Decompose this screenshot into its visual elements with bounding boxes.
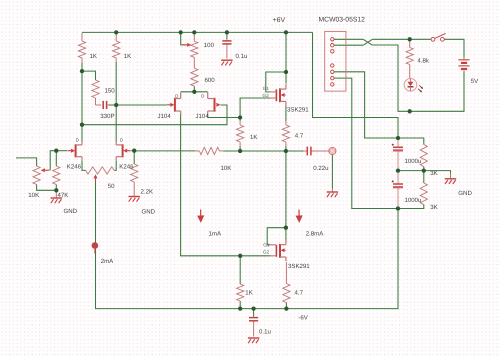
pin label D K246 right	[120, 138, 123, 143]
svg-text:1K: 1K	[90, 53, 97, 60]
wire 1K4 top lead	[239, 256, 241, 284]
wire mid rail right	[223, 150, 304, 152]
junction node LED-bottom	[408, 109, 412, 113]
junction node J104src-1K3	[238, 115, 242, 119]
junction node 3K-row	[422, 168, 426, 172]
svg-text:-6V: -6V	[298, 314, 308, 321]
svg-text:4.7: 4.7	[295, 290, 304, 297]
svg-text:4.8k: 4.8k	[417, 58, 429, 65]
resistor R 4.7 #1	[282, 121, 289, 146]
connector MCW03-05S12 box	[325, 31, 346, 91]
LED emission arrow 1	[419, 85, 423, 89]
wire 1K3 leads	[239, 118, 241, 122]
label K246 left	[67, 164, 82, 171]
capacitor C 330P	[96, 98, 109, 109]
label 1mA	[209, 231, 222, 238]
svg-text:150: 150	[105, 87, 116, 94]
svg-text:D: D	[175, 93, 178, 98]
transistor Q J104 right	[208, 92, 221, 114]
switch S1	[431, 33, 446, 41]
current annotation 2.8mA arrow	[296, 210, 303, 223]
value 3K #2	[430, 204, 437, 211]
svg-text:2.8mA: 2.8mA	[306, 231, 325, 238]
transistor Q 3SK291 top	[270, 84, 286, 105]
connector pin 7	[331, 83, 334, 86]
ground jack	[327, 189, 338, 198]
pin label G2 top	[263, 93, 270, 98]
wire 47K bottom lead	[55, 185, 57, 191]
pin label G1 bottom	[263, 243, 270, 248]
wire left J104 source down	[181, 114, 241, 256]
svg-text:1000u: 1000u	[405, 158, 422, 165]
wire twisted-pair crossing	[363, 39, 372, 45]
resistor R 47K	[53, 166, 60, 185]
value 4.8k	[417, 58, 429, 65]
resistor R 4.8k	[406, 41, 413, 79]
value 600	[205, 77, 216, 84]
wire 2.2K top lead	[133, 151, 135, 164]
junction node 4.7-midrail	[284, 149, 288, 153]
label -6V	[298, 314, 308, 321]
resistor R 10K	[195, 147, 223, 154]
wire 3K junction row to GND	[398, 171, 451, 174]
value 47K	[58, 192, 69, 199]
pin label D J104 left	[175, 93, 178, 98]
wire left J104 gate feed	[116, 104, 166, 106]
svg-text:0.22u: 0.22u	[313, 165, 328, 172]
wire bottom 3SK291 G1 link	[267, 228, 286, 245]
wire 330P to 1K2 node	[108, 104, 116, 106]
wire 1K1-150 link	[82, 71, 96, 80]
resistor R 3K #1	[420, 145, 427, 167]
wire 600 bottom to J104 drains	[193, 86, 195, 91]
wire -6V bottom rail	[240, 209, 398, 309]
svg-text:3K: 3K	[430, 170, 437, 177]
svg-text:3SK291: 3SK291	[288, 263, 310, 270]
value 50	[108, 183, 115, 190]
label K246 right	[119, 164, 134, 171]
resistor R 1K #1	[78, 33, 85, 63]
value 1000u #1	[405, 158, 422, 165]
connector pin 1	[331, 38, 334, 41]
svg-text:J104: J104	[158, 113, 172, 120]
svg-text:47K: 47K	[58, 192, 69, 199]
wire LED return vertical	[372, 45, 409, 111]
junction node drain-3SK291bot	[284, 226, 288, 230]
wire bottom 3SK291 G2 feed	[240, 255, 270, 257]
resistor R 600	[191, 60, 198, 86]
wire pin2 to crossing	[334, 44, 363, 46]
wire 100 trimpot wiper	[181, 32, 187, 45]
svg-text:MCW03-05S12: MCW03-05S12	[319, 17, 366, 24]
wire 47K top lead	[55, 151, 57, 166]
wire left K246 source down	[82, 160, 86, 170]
svg-text:10K: 10K	[28, 192, 39, 199]
junction node K246drain-gatereturn	[80, 123, 84, 127]
label J104 right	[196, 113, 210, 120]
label 1K #4	[245, 290, 252, 297]
svg-text:3SK291: 3SK291	[287, 107, 309, 114]
junction node rail-100wiper	[179, 30, 183, 34]
label J104 left	[158, 113, 172, 120]
transistor Q K246 right	[116, 142, 131, 160]
wire 3K1 top stub	[398, 138, 424, 145]
trimpot 10K wiper arrow	[41, 168, 50, 172]
connector output jack	[329, 147, 336, 154]
svg-text:D: D	[201, 94, 204, 99]
resistor R 100 trimpot	[191, 33, 198, 60]
wire +6V drop to 3SK291 top	[285, 32, 287, 83]
wire +6V top rail	[82, 31, 313, 33]
LED emission arrow 2	[418, 89, 422, 93]
connector pin 3	[331, 50, 334, 53]
junction node 47Ktop	[54, 149, 58, 153]
svg-text:1K: 1K	[245, 290, 252, 297]
value 0.22u	[313, 165, 328, 172]
LED D1	[404, 79, 417, 92]
wire mid rail	[134, 150, 195, 152]
wire 3K2 bottom stub	[398, 205, 424, 209]
wire pin5 drop	[334, 72, 398, 138]
svg-text:1K: 1K	[124, 53, 131, 60]
resistor R 4.7 #2	[283, 262, 290, 303]
resistor R 3K #2	[420, 183, 427, 205]
value 2.2K	[141, 188, 154, 195]
wire battery minus down to LED return rail	[410, 71, 464, 111]
resistor R 2.2K	[131, 164, 138, 192]
svg-text:600: 600	[205, 77, 216, 84]
capacitor C 0.22u	[304, 147, 329, 156]
junction node rail-0.1u	[225, 30, 229, 34]
value 0.1u bottom	[259, 328, 271, 335]
connector pin 5	[331, 70, 334, 73]
junction node rail-1K4	[238, 306, 242, 310]
junction node rail-100	[192, 30, 196, 34]
junction node LED-top	[408, 37, 412, 41]
capacitor C 1000u #2	[392, 171, 403, 209]
svg-text:1000u: 1000u	[405, 197, 422, 204]
junction node outrail-3	[396, 206, 400, 210]
wire right K246 source down	[114, 160, 116, 170]
value 4.7 #1	[295, 133, 304, 140]
wire J104 drain bus	[181, 91, 208, 93]
wire 3K1 bottom lead	[423, 167, 425, 171]
svg-text:4.7: 4.7	[295, 133, 304, 140]
svg-text:K246: K246	[119, 164, 134, 171]
wire 1K1 to K246 left drain vertical	[81, 63, 83, 142]
ground right GND	[445, 174, 456, 185]
wire G1 link top 3SK291	[266, 72, 286, 92]
value 1K #3	[250, 134, 257, 141]
wire input stub	[16, 158, 37, 166]
connector pin 2	[331, 44, 334, 47]
junction node 1K3-midrail	[238, 149, 242, 153]
wire 3SK291 top source to 4.7	[285, 106, 287, 121]
svg-text:G2: G2	[263, 249, 270, 254]
trimpot 50 wiper arrow	[94, 174, 98, 181]
wire jack to ground	[331, 155, 333, 189]
label 5V	[471, 78, 479, 85]
resistor R 150	[92, 80, 99, 98]
svg-text:G2: G2	[263, 93, 270, 98]
transistor Q J104 left	[167, 92, 181, 114]
svg-text:330P: 330P	[100, 113, 114, 120]
current annotation 1mA arrow	[197, 210, 204, 223]
svg-text:1K: 1K	[250, 134, 257, 141]
wire 1K4 bottom lead	[239, 301, 241, 309]
junction node rail-0.1ubot	[251, 306, 255, 310]
svg-text:+6V: +6V	[273, 17, 286, 24]
resistor R 50 trimpot	[86, 167, 115, 174]
junction node outrail-1	[396, 136, 400, 140]
junction node 2.2Ktop	[132, 149, 136, 153]
wire 4.7#2 bottom lead	[285, 303, 287, 309]
value 10K pot	[28, 192, 39, 199]
connector pin 4	[331, 64, 334, 67]
svg-text:2.2K: 2.2K	[141, 188, 154, 195]
wire 10K pot bottom to GND node	[37, 185, 57, 191]
current annotation 2mA dot	[92, 242, 99, 253]
capacitor C 1000u #1	[392, 138, 403, 171]
wire gate right K246	[131, 150, 134, 152]
value 150	[105, 87, 116, 94]
wire pin1 to crossing	[334, 38, 363, 40]
label GND mid	[142, 209, 156, 216]
svg-text:J104: J104	[196, 113, 210, 120]
trimpot 100 wiper arrow	[182, 43, 191, 47]
label 3SK291 top	[287, 107, 309, 114]
pin label D K246 left	[76, 138, 79, 143]
transistor Q 3SK291 bottom	[270, 240, 286, 261]
pin label G2 bottom	[263, 249, 270, 254]
value 1K #1	[90, 53, 97, 60]
svg-text:10K: 10K	[221, 165, 232, 172]
wire 0.1u bottom cap top lead	[253, 309, 255, 316]
svg-text:2mA: 2mA	[101, 258, 114, 265]
wire 1K2 node down to K246 right drain	[115, 105, 117, 142]
svg-text:1mA: 1mA	[209, 231, 222, 238]
ground under 0.1u bottom cap	[248, 338, 259, 343]
wire pot wiper to 47K top node	[50, 151, 56, 171]
wire 1K3 bottom	[239, 146, 241, 151]
label GND right	[458, 190, 472, 197]
label MCW03-05S12	[319, 17, 366, 24]
junction node G1top	[284, 70, 288, 74]
label +6V	[273, 17, 286, 24]
value 0.1u top	[236, 53, 248, 60]
svg-text:100: 100	[204, 42, 215, 49]
ground 2.2K	[129, 192, 140, 202]
junction node rail-+6V	[284, 30, 288, 34]
svg-text:D: D	[120, 138, 123, 143]
label 3SK291 bottom	[288, 263, 310, 270]
wire top rail down-right segment	[313, 32, 399, 138]
svg-text:D: D	[76, 138, 79, 143]
svg-text:GND: GND	[458, 190, 472, 197]
capacitor C 0.1u top	[222, 39, 231, 59]
wire 3K2 top lead	[423, 171, 425, 183]
resistor R 1K #3	[237, 121, 244, 146]
wire 4.7#1 bottom	[285, 146, 287, 151]
junction node 1K1-150	[80, 69, 84, 73]
junction node G2bot-1K4	[238, 254, 242, 258]
label 2.8mA	[306, 231, 325, 238]
wire crossing to switch	[372, 38, 431, 40]
svg-text:50: 50	[108, 183, 115, 190]
svg-text:G1: G1	[263, 86, 270, 91]
junction node 600-J104	[192, 90, 196, 94]
resistor R 1K #2	[113, 33, 120, 62]
wire 1K2 down to J104 gate node	[115, 62, 117, 105]
svg-text:3K: 3K	[430, 204, 437, 211]
svg-text:G1: G1	[263, 243, 270, 248]
battery 5V	[458, 58, 469, 72]
svg-text:GND: GND	[142, 209, 156, 216]
wire 0.1u top cap lead	[226, 32, 228, 39]
svg-text:0.1u: 0.1u	[259, 328, 271, 335]
label 2mA	[101, 258, 114, 265]
junction node outrail-2	[396, 168, 400, 172]
wire gate left K246	[56, 150, 67, 152]
value 10K mid	[221, 165, 232, 172]
wire pin6 drop	[334, 78, 398, 208]
resistor R 1K #4	[237, 284, 244, 301]
pin label G1 top	[263, 86, 270, 91]
pin label D J104 right	[201, 94, 204, 99]
capacitor C 0.1u bottom	[249, 316, 258, 337]
junction node 47Kbot-gnd	[54, 188, 58, 192]
wire 1K node up to G2 top 3SK291	[240, 98, 270, 118]
junction node 330P-1K2	[114, 103, 118, 107]
value 1K #2	[124, 53, 131, 60]
label GND left	[64, 208, 78, 215]
svg-text:0.1u: 0.1u	[236, 53, 248, 60]
svg-text:K246: K246	[67, 164, 82, 171]
wire switch to battery	[444, 39, 464, 57]
junction node rail-4.7bot	[284, 306, 288, 310]
value 100	[204, 42, 215, 49]
wire right J104 source to 1K node	[208, 114, 240, 117]
value 3K #1	[430, 170, 437, 177]
value 330P	[100, 113, 114, 120]
svg-text:5V: 5V	[471, 78, 479, 85]
junction node rail-1K2	[114, 30, 118, 34]
connector pin 6	[331, 76, 334, 79]
value 4.7 #2	[295, 290, 304, 297]
resistor R 10K trimpot	[33, 166, 40, 185]
wire mid rail down to bottom 3SK291 drain	[285, 151, 287, 241]
wire 50 wiper down / 2mA line	[96, 181, 241, 309]
ground under 0.1u top cap	[221, 60, 232, 65]
ground 10K/47K	[51, 190, 62, 203]
wire right J104 gate return to K246 left drain node	[82, 105, 227, 125]
svg-text:GND: GND	[64, 208, 78, 215]
value 1000u #2	[405, 197, 422, 204]
transistor Q K246 left	[67, 142, 82, 160]
